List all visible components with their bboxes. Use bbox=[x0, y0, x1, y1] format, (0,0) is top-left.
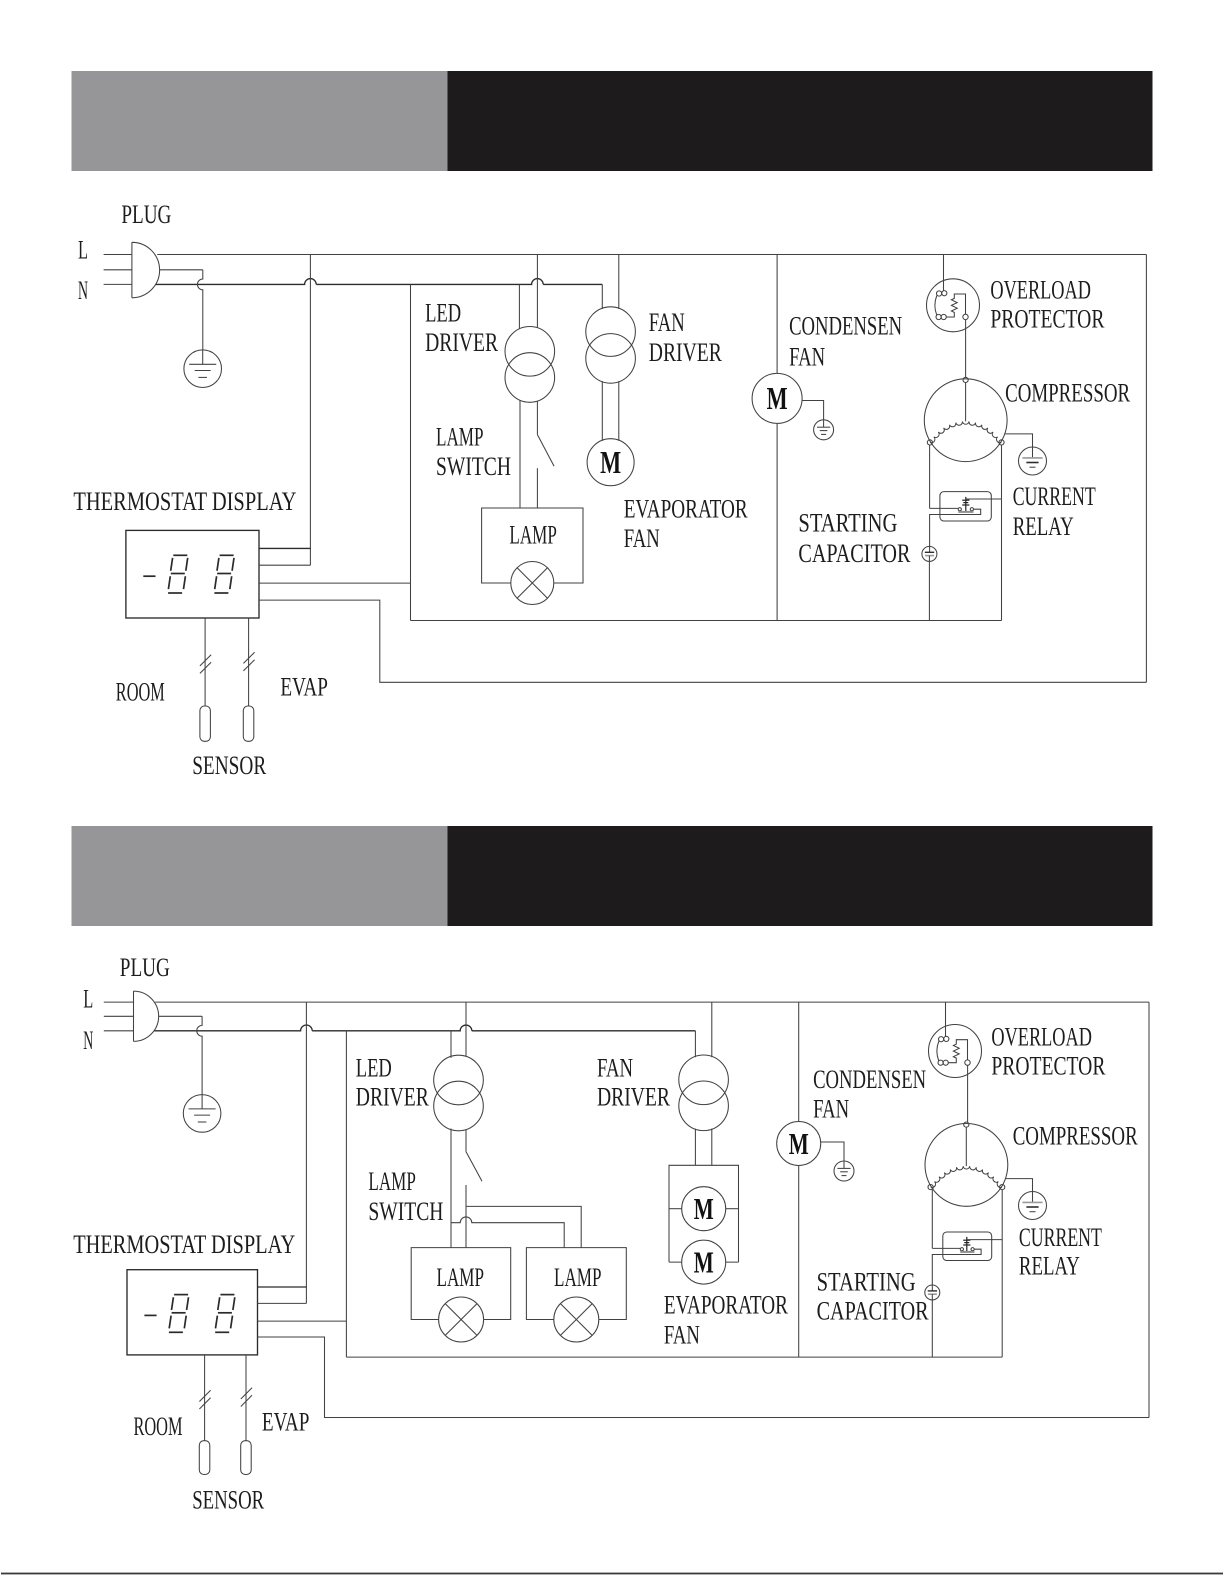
wire N bus (diagram 2) with hops at display and LED driver drops bbox=[154, 1025, 695, 1031]
wire overload to compressor (diagram 2) bbox=[967, 1065, 969, 1122]
wire display C to mid-section (diagram 1) bbox=[259, 582, 411, 584]
plug P1 prong N bbox=[104, 283, 132, 285]
wire compressor run terminal down (diagram 2) bbox=[1001, 1190, 1003, 1358]
wire fan driver primary right from L (diagram 2) bbox=[711, 1002, 713, 1057]
break marks room sensor lead (diagram 1) bbox=[200, 655, 211, 666]
svg-text:EVAPORATOR: EVAPORATOR bbox=[624, 494, 748, 523]
ground symbol at condenser fan (diagram 1) bbox=[814, 420, 834, 440]
svg-text:M: M bbox=[767, 380, 788, 416]
svg-text:OVERLOAD: OVERLOAD bbox=[991, 1022, 1092, 1051]
wire fan driver primary left from N (diagram 1) bbox=[601, 284, 603, 309]
wire LED driver primary left from N (diagram 1) bbox=[518, 284, 520, 329]
relay bridge return wire (diagram 1) bbox=[930, 509, 981, 552]
wire condenser branch upper (diagram 1) bbox=[776, 255, 778, 374]
svg-text:FAN: FAN bbox=[789, 342, 825, 371]
wire LED driver secondary left (diagram 2) bbox=[450, 1129, 452, 1248]
wire display C to mid-section (diagram 2) bbox=[258, 1320, 347, 1322]
display digit 8 left (diagram 2) bbox=[169, 1295, 189, 1333]
wire display drop from L (diagram 2) bbox=[305, 1002, 307, 1303]
wire fan driver primary right from L (diagram 1) bbox=[618, 255, 620, 309]
relay contact bridge bar (diagram 2) bbox=[960, 1251, 974, 1253]
wire display B to L drop (diagram 2) bbox=[258, 1302, 307, 1304]
wire bottom bus (diagram 2) bbox=[346, 1356, 1002, 1358]
svg-text:PROTECTOR: PROTECTOR bbox=[990, 305, 1104, 334]
overload protector bimetal arc (diagram 2) bbox=[937, 1041, 939, 1061]
wire display drop from L (diagram 1) bbox=[309, 255, 311, 566]
relay contact bridge bar (diagram 1) bbox=[958, 511, 973, 513]
capacitor starting capacitor (diagram 1) bbox=[922, 546, 937, 561]
wire overload protector feed from L (diagram 2) bbox=[945, 1002, 947, 1037]
compressor winding (diagram 2) bbox=[931, 1166, 1002, 1187]
svg-text:CURRENT: CURRENT bbox=[1013, 482, 1096, 511]
svg-text:DRIVER: DRIVER bbox=[356, 1082, 429, 1111]
overload protector contacts (diagram 2) bbox=[939, 1037, 944, 1042]
display digit 8 right (diagram 2) bbox=[215, 1295, 235, 1333]
wire compressor start terminal to relay (diagram 1) bbox=[929, 445, 931, 509]
wire switch drop to left lamp with hop context (diagram 2) bbox=[465, 1206, 467, 1247]
thermostat display box (diagram 1) bbox=[126, 530, 259, 618]
svg-text:DRIVER: DRIVER bbox=[597, 1082, 670, 1111]
evaporator fan box (diagram 2) bbox=[669, 1165, 739, 1262]
wire bottom bus (diagram 1) bbox=[411, 620, 1002, 622]
switch S2 blade (diagram 2) bbox=[466, 1152, 482, 1182]
svg-text:LAMP: LAMP bbox=[554, 1263, 602, 1292]
relay coil output wire (diagram 1) bbox=[966, 498, 1002, 500]
compressor left terminal (diagram 1) bbox=[927, 440, 932, 445]
wire L bus (diagram 2) bbox=[155, 1001, 1149, 1003]
wire capacitor to bottom bus (diagram 2) bbox=[931, 1294, 933, 1357]
ground symbol at compressor (diagram 2) bbox=[1019, 1192, 1047, 1220]
wire LED driver primary left from N (diagram 2) bbox=[450, 1031, 452, 1058]
svg-text:DRIVER: DRIVER bbox=[425, 328, 498, 357]
svg-text:FAN: FAN bbox=[664, 1320, 700, 1349]
motor M evaporator fan 1 (diagram 2) bbox=[682, 1187, 726, 1231]
svg-text:ROOM: ROOM bbox=[134, 1412, 183, 1441]
svg-text:STARTING: STARTING bbox=[817, 1267, 916, 1296]
wire display D return (diagram 1) bbox=[259, 600, 1146, 682]
svg-text:LED: LED bbox=[425, 299, 461, 328]
wire fan driver primary left from N (diagram 2) bbox=[694, 1031, 696, 1057]
svg-text:SENSOR: SENSOR bbox=[192, 1485, 264, 1514]
svg-text:DRIVER: DRIVER bbox=[649, 338, 722, 367]
svg-text:THERMOSTAT DISPLAY: THERMOSTAT DISPLAY bbox=[73, 487, 296, 516]
wire N bus (diagram 1) with hops at display and LED driver drops bbox=[156, 279, 603, 285]
svg-text:LED: LED bbox=[356, 1053, 392, 1082]
plug P1 prong E bbox=[104, 269, 132, 271]
wire condenser fan earth stub (diagram 1) bbox=[802, 401, 824, 420]
wire capacitor to bottom bus (diagram 1) bbox=[928, 556, 930, 621]
svg-text:FAN: FAN bbox=[624, 524, 660, 553]
header bar 1 black segment bbox=[448, 71, 1153, 171]
lamp E3 symbol (diagram 2) bbox=[554, 1297, 599, 1342]
compressor body (diagram 2) bbox=[925, 1124, 1008, 1207]
wire condenser branch lower (diagram 2) bbox=[798, 1166, 800, 1358]
room sensor capsule (diagram 1) bbox=[200, 706, 211, 741]
wire display D return (diagram 2) bbox=[258, 1337, 1150, 1418]
compressor right terminal (diagram 1) bbox=[999, 440, 1004, 445]
wire H2 led to right lamp with hop over switch drop (diagram 2) bbox=[451, 1217, 564, 1248]
relay contact right (diagram 2) bbox=[971, 1248, 974, 1251]
plug P1 body bbox=[132, 242, 160, 297]
svg-text:CURRENT: CURRENT bbox=[1019, 1223, 1102, 1252]
relay coil output wire (diagram 2) bbox=[967, 1239, 1002, 1241]
transformer LED driver (diagram 1) bbox=[505, 327, 555, 377]
wire mid-section left edge from N (diagram 2) bbox=[345, 1031, 347, 1357]
wire fan driver secondary left (diagram 1) bbox=[601, 381, 603, 441]
overload protector output terminal (diagram 2) bbox=[965, 1060, 970, 1065]
compressor centre tap wire (diagram 2) bbox=[965, 1127, 967, 1166]
wire earth from plug (diagram 1) bbox=[160, 269, 203, 271]
plug P1 prong L bbox=[104, 254, 132, 256]
compressor body (diagram 1) bbox=[924, 379, 1007, 462]
wire compressor case earth (diagram 2) bbox=[1006, 1179, 1033, 1192]
svg-text:FAN: FAN bbox=[597, 1053, 633, 1082]
lamp E1 symbol (diagram 1) bbox=[511, 562, 554, 605]
switch S1 blade (diagram 1) bbox=[537, 435, 554, 467]
overload protector contacts (diagram 1) bbox=[937, 291, 942, 296]
svg-text:COMPRESSOR: COMPRESSOR bbox=[1013, 1122, 1138, 1151]
thermostat display box (diagram 2) bbox=[127, 1270, 258, 1355]
wire display A to L drop (diagram 2) bbox=[258, 1286, 307, 1288]
wire evap sensor lead (diagram 1) bbox=[248, 618, 250, 706]
svg-text:LAMP: LAMP bbox=[436, 423, 484, 452]
display minus sign (diagram 1) bbox=[143, 575, 155, 577]
wire compressor start terminal to relay (diagram 2) bbox=[931, 1190, 933, 1249]
ground symbol at condenser fan (diagram 2) bbox=[834, 1161, 854, 1181]
svg-text:FAN: FAN bbox=[649, 308, 685, 337]
lamp box (diagram 1) bbox=[482, 508, 583, 583]
motor M condenser fan (diagram 1) bbox=[752, 373, 802, 423]
break marks room sensor lead (diagram 2) bbox=[199, 1390, 210, 1401]
relay contact left (diagram 2) bbox=[960, 1248, 963, 1251]
ground symbol protective earth at plug (diagram 1) bbox=[184, 350, 222, 388]
svg-text:CONDENSEN: CONDENSEN bbox=[789, 312, 902, 341]
svg-text:N: N bbox=[83, 1026, 93, 1055]
svg-text:N: N bbox=[78, 276, 88, 305]
header bar 2 gray segment bbox=[72, 826, 448, 926]
svg-text:CAPACITOR: CAPACITOR bbox=[798, 539, 911, 568]
wire fan driver secondary right (diagram 1) bbox=[618, 381, 620, 441]
display minus sign (diagram 2) bbox=[144, 1314, 156, 1316]
wire LED driver primary right from L (diagram 2) bbox=[465, 1002, 467, 1056]
motor M evaporator fan 2 (diagram 2) bbox=[682, 1240, 726, 1284]
break marks evap sensor lead (diagram 2) bbox=[241, 1388, 252, 1399]
compressor top terminal (diagram 2) bbox=[964, 1122, 969, 1127]
overload protector OLP body (diagram 2) bbox=[929, 1025, 982, 1078]
overload protector heater resistor (diagram 1) bbox=[946, 294, 965, 317]
lamp E2 symbol (diagram 2) bbox=[439, 1297, 484, 1342]
wire LED driver secondary right to switch (diagram 2) bbox=[465, 1130, 467, 1152]
svg-text:FAN: FAN bbox=[813, 1094, 849, 1123]
svg-text:PLUG: PLUG bbox=[120, 953, 170, 982]
display digit 8 right (diagram 1) bbox=[214, 555, 234, 593]
display digit 8 left (diagram 1) bbox=[168, 555, 188, 593]
right lamp box (diagram 2) bbox=[526, 1248, 626, 1320]
svg-text:THERMOSTAT DISPLAY: THERMOSTAT DISPLAY bbox=[73, 1230, 295, 1259]
svg-text:LAMP: LAMP bbox=[437, 1263, 485, 1292]
svg-text:M: M bbox=[600, 444, 621, 480]
wire display A to L drop (diagram 1) bbox=[259, 547, 310, 549]
plug P2 prong N bbox=[104, 1030, 134, 1032]
wire compressor run terminal down (diagram 1) bbox=[1001, 445, 1003, 621]
capacitor starting capacitor (diagram 2) bbox=[925, 1285, 940, 1300]
overload protector heater resistor (diagram 2) bbox=[948, 1040, 967, 1063]
page footer rule bbox=[1, 1573, 1223, 1575]
wire room sensor lead (diagram 1) bbox=[204, 618, 206, 706]
room sensor capsule (diagram 2) bbox=[199, 1441, 210, 1475]
compressor centre tap wire (diagram 1) bbox=[965, 383, 967, 422]
compressor winding (diagram 1) bbox=[930, 422, 1001, 443]
relay contact left (diagram 1) bbox=[958, 508, 961, 511]
svg-text:RELAY: RELAY bbox=[1013, 512, 1074, 541]
plug P2 body bbox=[134, 991, 159, 1041]
wire overload to compressor (diagram 1) bbox=[965, 320, 967, 378]
wire display B to L drop (diagram 1) bbox=[259, 564, 310, 566]
current relay box (diagram 2) bbox=[943, 1232, 992, 1261]
relay plunger (diagram 1) bbox=[962, 497, 969, 511]
svg-text:ROOM: ROOM bbox=[116, 678, 165, 707]
wire switch lower terminal (diagram 2) bbox=[465, 1185, 467, 1206]
wire compressor case earth (diagram 1) bbox=[1005, 434, 1033, 447]
break marks evap sensor lead (diagram 1) bbox=[243, 652, 254, 663]
svg-text:EVAPORATOR: EVAPORATOR bbox=[664, 1291, 788, 1320]
compressor left terminal (diagram 2) bbox=[928, 1185, 933, 1190]
compressor top terminal (diagram 1) bbox=[963, 377, 968, 382]
wire overload protector feed from L (diagram 1) bbox=[943, 255, 945, 291]
svg-text:LAMP: LAMP bbox=[509, 520, 557, 549]
compressor right terminal (diagram 2) bbox=[1000, 1185, 1005, 1190]
wire switch lower terminal to lamp box (diagram 1) bbox=[536, 468, 538, 508]
relay contact feed wire (diagram 1) bbox=[930, 507, 958, 509]
wire condenser branch upper (diagram 2) bbox=[798, 1002, 800, 1121]
wire H1 switch to right lamp (diagram 2) bbox=[466, 1206, 581, 1247]
wire earth drop with hop over N (diagram 2) bbox=[197, 1016, 202, 1094]
svg-text:EVAP: EVAP bbox=[262, 1407, 310, 1436]
svg-text:L: L bbox=[78, 235, 88, 264]
wire earth drop with hop over N (diagram 1) bbox=[197, 270, 202, 350]
svg-text:EVAP: EVAP bbox=[280, 673, 328, 702]
wire earth from plug (diagram 2) bbox=[159, 1015, 202, 1017]
wire L bus (diagram 1) bbox=[157, 254, 1146, 256]
svg-text:SWITCH: SWITCH bbox=[436, 452, 511, 481]
wire LED driver secondary right to lamp switch (diagram 1) bbox=[536, 401, 538, 434]
relay bridge return wire (diagram 2) bbox=[932, 1249, 981, 1290]
svg-text:LAMP: LAMP bbox=[368, 1167, 416, 1196]
overload protector OLP body (diagram 1) bbox=[927, 279, 980, 332]
svg-text:M: M bbox=[694, 1191, 714, 1226]
wire room sensor lead (diagram 2) bbox=[204, 1355, 206, 1441]
relay contact feed wire (diagram 2) bbox=[932, 1247, 960, 1249]
svg-text:COMPRESSOR: COMPRESSOR bbox=[1005, 378, 1130, 407]
svg-text:M: M bbox=[694, 1244, 714, 1279]
evap sensor capsule (diagram 1) bbox=[243, 706, 254, 741]
svg-text:SENSOR: SENSOR bbox=[192, 751, 266, 780]
wire condenser branch lower (diagram 1) bbox=[776, 423, 778, 620]
wire mid-section left edge from N (diagram 1) bbox=[410, 284, 412, 620]
svg-text:RELAY: RELAY bbox=[1019, 1251, 1080, 1280]
transformer LED driver (diagram 2) bbox=[434, 1055, 484, 1105]
wire evap sensor lead (diagram 2) bbox=[245, 1355, 247, 1441]
svg-text:PLUG: PLUG bbox=[121, 200, 171, 229]
ground symbol at compressor (diagram 1) bbox=[1019, 447, 1047, 475]
svg-text:M: M bbox=[789, 1126, 809, 1161]
left lamp box (diagram 2) bbox=[411, 1248, 511, 1320]
evap sensor capsule (diagram 2) bbox=[241, 1441, 252, 1475]
motor M evaporator fan (diagram 1) bbox=[587, 439, 634, 486]
svg-text:CAPACITOR: CAPACITOR bbox=[817, 1297, 930, 1326]
header bar 2 black segment bbox=[448, 826, 1153, 926]
current relay box (diagram 1) bbox=[940, 492, 991, 521]
svg-text:CONDENSEN: CONDENSEN bbox=[813, 1065, 926, 1094]
transformer fan driver (diagram 1) bbox=[586, 307, 636, 357]
relay plunger (diagram 2) bbox=[966, 1237, 968, 1251]
ground symbol protective earth at plug (diagram 2) bbox=[183, 1095, 221, 1133]
overload protector bimetal arc (diagram 1) bbox=[935, 296, 937, 316]
svg-text:SWITCH: SWITCH bbox=[368, 1197, 443, 1226]
header bar 1 gray segment bbox=[72, 71, 448, 171]
overload protector output terminal (diagram 1) bbox=[963, 314, 968, 319]
motor M condenser fan (diagram 2) bbox=[777, 1122, 821, 1166]
plug P2 prong L bbox=[104, 1001, 134, 1003]
svg-text:STARTING: STARTING bbox=[798, 509, 897, 538]
wire right edge of compressor loop (diagram 2) bbox=[1148, 1002, 1150, 1417]
svg-text:OVERLOAD: OVERLOAD bbox=[990, 275, 1091, 304]
svg-text:L: L bbox=[83, 984, 93, 1013]
plug P2 prong E bbox=[104, 1015, 134, 1017]
wire right edge of compressor loop (diagram 1) bbox=[1145, 255, 1147, 683]
transformer fan driver (diagram 2) bbox=[679, 1055, 729, 1105]
wire fan driver secondary right (diagram 2) bbox=[711, 1129, 713, 1166]
svg-text:PROTECTOR: PROTECTOR bbox=[991, 1051, 1105, 1080]
relay contact right (diagram 1) bbox=[970, 508, 973, 511]
wire fan driver secondary left (diagram 2) bbox=[694, 1129, 696, 1166]
wire condenser fan earth stub (diagram 2) bbox=[821, 1142, 844, 1161]
wire LED driver secondary left (diagram 1) bbox=[519, 400, 521, 508]
wire LED driver primary right from L (diagram 1) bbox=[536, 255, 538, 328]
